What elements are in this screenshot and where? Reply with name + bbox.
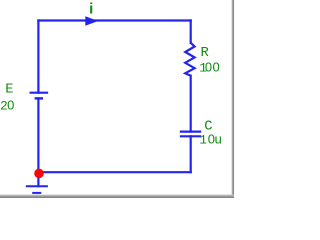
current arrow	[85, 16, 98, 26]
resistor R zigzag	[185, 43, 194, 76]
wire right vertical lower	[190, 136, 192, 172]
svg-text:0: 0	[7, 98, 14, 113]
capacitor C top plate	[180, 131, 201, 133]
battery E short plate	[35, 97, 43, 99]
ground stub wire	[37, 172, 39, 186]
svg-text:1: 1	[199, 133, 207, 148]
svg-text:0: 0	[205, 59, 212, 74]
ground wide bar	[26, 185, 48, 187]
svg-text:u: u	[214, 133, 222, 148]
wire right vertical middle	[190, 76, 192, 132]
wire top horizontal	[38, 19, 190, 21]
node (red dot)	[34, 169, 44, 179]
ground short bar	[32, 192, 41, 194]
svg-text:E: E	[5, 83, 13, 98]
wire right vertical upper	[190, 20, 192, 42]
svg-text:i: i	[89, 1, 93, 18]
svg-text:0: 0	[213, 59, 220, 74]
battery E long plate	[30, 92, 49, 94]
wire bottom horizontal	[38, 171, 190, 173]
window border right	[232, 0, 234, 198]
window border bottom	[0, 195, 234, 198]
capacitor C bottom plate	[180, 135, 201, 137]
wire left vertical lower	[37, 98, 39, 172]
wire left vertical upper	[37, 21, 39, 93]
